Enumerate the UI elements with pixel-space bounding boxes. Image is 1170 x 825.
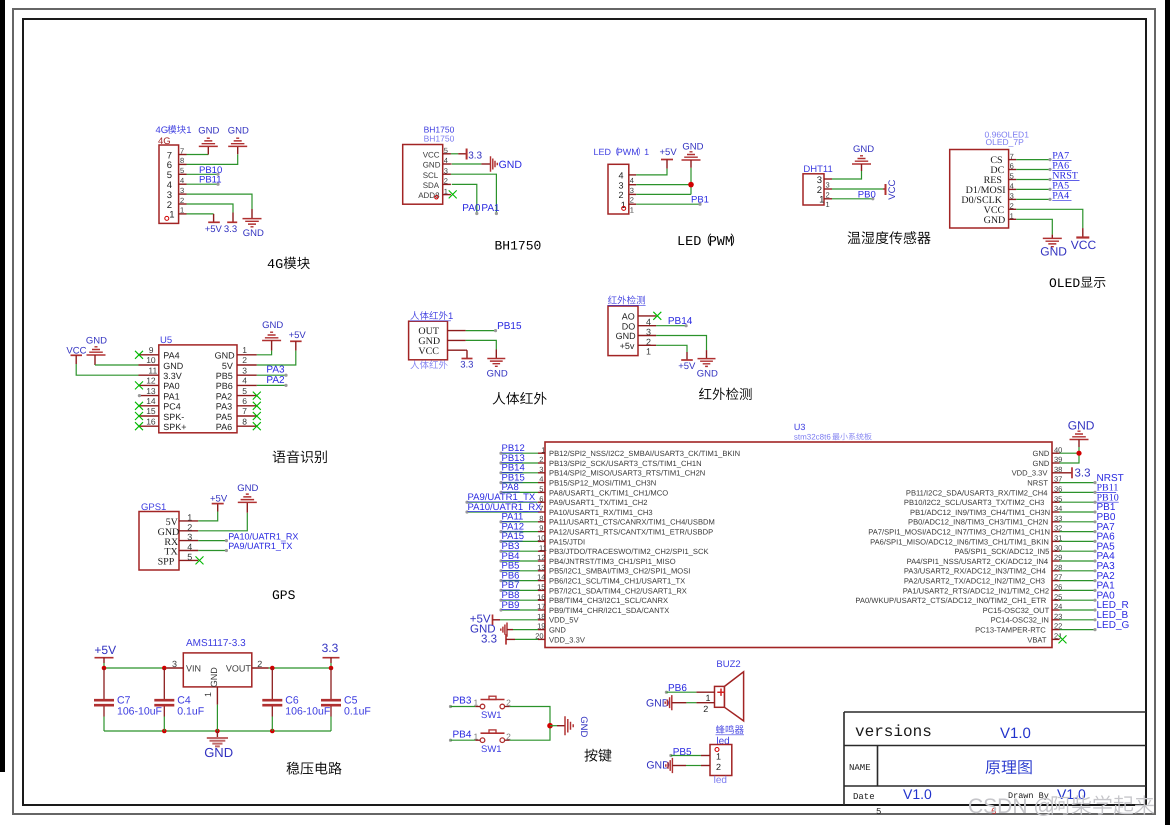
title block <box>844 712 1146 805</box>
LED PWM connector LED（PWM）1 <box>594 147 650 214</box>
ground GND (regulator) <box>204 731 233 760</box>
wire PIR VCC to 3.3 <box>466 349 467 351</box>
svg-text:5: 5 <box>242 386 247 396</box>
svg-text:1: 1 <box>242 345 247 355</box>
svg-text:4: 4 <box>539 475 543 484</box>
svg-text:PWM: PWM <box>617 147 639 157</box>
wire PB5 to led pin1 <box>671 755 701 757</box>
OLED display 0.96OLED1 <box>950 130 1029 229</box>
PIR module 人体红外1 <box>409 311 466 369</box>
wire 4G pin3 to GND <box>187 194 253 209</box>
svg-text:PA0/WKUP/USART2_CTS/ADC12_IN0/: PA0/WKUP/USART2_CTS/ADC12_IN0/TIM2_CH1_E… <box>855 596 1046 605</box>
svg-text:PC13-TAMPER-RTC: PC13-TAMPER-RTC <box>975 626 1046 635</box>
wire OLED pin7 to PA7 <box>1016 159 1050 161</box>
svg-text:GND: GND <box>1033 449 1050 458</box>
wire LED PWM pin3 to GND rail <box>636 184 691 186</box>
svg-text:PB11/I2C2_SDA/USART3_RX/TIM2_C: PB11/I2C2_SDA/USART3_RX/TIM2_CH4 <box>906 488 1048 497</box>
4G module connector 4G模块1 <box>156 125 192 223</box>
svg-text:4: 4 <box>1010 182 1014 191</box>
svg-text:PB3: PB3 <box>453 696 472 707</box>
wire OLED pin3 to PA4 <box>1016 198 1050 200</box>
svg-text:2: 2 <box>703 704 708 714</box>
svg-text:1: 1 <box>706 693 711 703</box>
svg-text:PB0: PB0 <box>858 189 876 200</box>
svg-text:19: 19 <box>537 622 545 631</box>
wire U3 pin1 PB12 <box>501 452 538 454</box>
wire OLED pin5 to NRST <box>1016 179 1050 181</box>
svg-text:4: 4 <box>444 156 448 165</box>
svg-text:PB6: PB6 <box>216 381 233 391</box>
buzzer BUZ2 <box>696 659 744 735</box>
svg-text:4: 4 <box>630 176 634 185</box>
power +5V (U3 VDD_5V) <box>470 614 493 626</box>
svg-text:1: 1 <box>646 347 651 357</box>
wire U3 pin9 PA12 <box>501 531 538 533</box>
no-connect U5 pin7 <box>253 412 261 420</box>
svg-text:PA2: PA2 <box>216 391 232 401</box>
svg-text:BH1750: BH1750 <box>424 133 455 143</box>
no-connect U5 pin14 <box>135 402 143 410</box>
svg-text:15: 15 <box>146 406 156 416</box>
svg-text:PB15/SP12_MOSI/TIM1_CH3N: PB15/SP12_MOSI/TIM1_CH3N <box>549 479 656 488</box>
regulator AMS1117-3.3 <box>167 638 269 705</box>
svg-text:VOUT: VOUT <box>226 664 252 674</box>
svg-text:17: 17 <box>537 602 545 611</box>
power 3.3 (regulator output) <box>322 641 340 663</box>
svg-text:GND: GND <box>682 142 703 153</box>
svg-text:1: 1 <box>169 210 174 221</box>
svg-text:PB5/I2C1_SMBAI/TIM3_CH2/SPI1_M: PB5/I2C1_SMBAI/TIM3_CH2/SPI1_MOSI <box>549 567 690 576</box>
junction output rail C5 <box>329 666 334 671</box>
switch SW1 (PB4) <box>474 730 512 755</box>
svg-text:2: 2 <box>1010 202 1014 211</box>
svg-text:1: 1 <box>541 445 545 454</box>
no-connect U5 pin9 <box>135 351 143 359</box>
wire SW1 to GND rail <box>505 706 510 708</box>
svg-text:18: 18 <box>537 612 545 621</box>
ground GND (U5 pin10) <box>86 335 107 365</box>
svg-text:12: 12 <box>537 553 545 562</box>
wire U3 pin17 PB9 <box>501 609 538 611</box>
svg-text:4G: 4G <box>156 125 169 136</box>
svg-text:SDA: SDA <box>423 181 440 190</box>
label 温湿度传感器 <box>848 231 861 243</box>
svg-text:5: 5 <box>876 807 881 817</box>
no-connect U5 pin5 <box>253 392 261 400</box>
svg-text:0.1uF: 0.1uF <box>177 706 204 718</box>
svg-text:OLED_7P: OLED_7P <box>986 137 1025 147</box>
svg-text:PA7/SPI1_MOSI/ADC12_IN7/TIM3_C: PA7/SPI1_MOSI/ADC12_IN7/TIM3_CH2/TIM1_CH… <box>868 528 1050 537</box>
svg-text:1: 1 <box>180 206 184 215</box>
svg-text:stm32c8t6: stm32c8t6 <box>794 433 831 442</box>
svg-text:PA2/USART2_TX/ADC12_IN2/TIM2_C: PA2/USART2_TX/ADC12_IN2/TIM2_CH3 <box>904 577 1045 586</box>
ground GND (U5 pin1) <box>262 320 283 351</box>
ground GND (LED PWM) <box>682 142 704 168</box>
svg-text:LED: LED <box>594 147 612 157</box>
power +5V (LED PWM pin4) <box>660 147 678 169</box>
power +5V (IR) <box>678 352 696 372</box>
IR detect module 红外检测 <box>608 295 657 356</box>
svg-text:1: 1 <box>203 692 213 697</box>
wire U3 pin30 PA5 <box>1060 550 1096 552</box>
wire OLED VCC to VCC <box>1016 209 1083 228</box>
svg-text:5: 5 <box>187 552 192 562</box>
svg-text:1: 1 <box>630 205 634 214</box>
wire GND to buzzer pin2 <box>672 702 687 704</box>
svg-text:PA5/SPI1_SCK/ADC12_IN5: PA5/SPI1_SCK/ADC12_IN5 <box>955 547 1050 556</box>
svg-text:5: 5 <box>180 166 184 175</box>
svg-text:VCC: VCC <box>887 180 898 200</box>
svg-text:VIN: VIN <box>186 664 201 674</box>
svg-text:GND: GND <box>697 369 718 380</box>
svg-text:PB14/SPI2_MISO/USART3_RTS/TIM1: PB14/SPI2_MISO/USART3_RTS/TIM1_CH2N <box>549 469 705 478</box>
wire DHT11 pin1 to PB0 <box>832 198 873 200</box>
wire 4G pin1 to +5V <box>187 213 214 215</box>
wire U3 pin16 PB8 <box>501 599 538 601</box>
svg-text:3.3: 3.3 <box>481 633 497 645</box>
wire IR GND to GND <box>656 336 706 351</box>
svg-text:PB9/TIM4_CHR/I2C1_SDA/CANTX: PB9/TIM4_CHR/I2C1_SDA/CANTX <box>549 606 669 615</box>
svg-text:2: 2 <box>444 177 448 186</box>
svg-text:+5v: +5v <box>620 341 635 351</box>
wire GPS RX to PA10/UATR1_RX <box>198 540 226 542</box>
wire U3 pin3 PB14 <box>501 472 538 474</box>
svg-text:PC15-OSC32_OUT: PC15-OSC32_OUT <box>983 606 1050 615</box>
svg-text:PC4: PC4 <box>163 402 181 412</box>
svg-text:15: 15 <box>537 583 545 592</box>
svg-text:PB1: PB1 <box>691 195 709 206</box>
junction ground rail C6 <box>270 729 275 734</box>
ground GND (OLED) <box>1040 235 1067 259</box>
svg-text:GND: GND <box>423 161 441 170</box>
svg-text:7: 7 <box>1010 152 1014 161</box>
svg-text:1: 1 <box>186 125 191 136</box>
wire U5 pin4 to PA2 <box>257 384 286 386</box>
power VCC (U5 pin11) <box>66 345 86 364</box>
svg-text:GND: GND <box>163 361 184 371</box>
svg-text:SPP: SPP <box>158 557 175 568</box>
svg-text:11: 11 <box>539 543 547 552</box>
svg-text:GND: GND <box>209 667 219 688</box>
wire U5 pin1 to GND <box>257 351 272 355</box>
svg-text:3: 3 <box>1010 192 1014 201</box>
led indicator <box>701 736 732 786</box>
wire 4G pin7 to GND <box>187 154 209 156</box>
power 3.3 (U3 VDD_3.3V) <box>481 633 506 645</box>
svg-text:CSDN @: CSDN @ <box>968 795 1055 818</box>
svg-text:DHT11: DHT11 <box>803 164 832 175</box>
svg-text:2: 2 <box>539 455 543 464</box>
svg-text:PA10/UATR1_RX: PA10/UATR1_RX <box>228 531 298 541</box>
wire U5 pin11 to VCC <box>76 364 138 375</box>
svg-text:PA8/USART1_CK/TIM1_CH1/MCO: PA8/USART1_CK/TIM1_CH1/MCO <box>549 488 668 497</box>
svg-text:PA1: PA1 <box>163 391 179 401</box>
svg-text:PA4/SPI1_NSS/USART2_CK/ADC12_I: PA4/SPI1_NSS/USART2_CK/ADC12_IN4 <box>907 557 1049 566</box>
wire GPS TX to PA9/UATR1_TX <box>198 550 226 552</box>
svg-text:PB14: PB14 <box>668 316 693 327</box>
svg-text:14: 14 <box>146 396 156 406</box>
svg-text:GND: GND <box>487 369 508 380</box>
wire PB6 to buzzer pin1 <box>666 691 696 693</box>
svg-text:PA3: PA3 <box>216 402 232 412</box>
wire U3 pin24 LED_R <box>1060 609 1096 611</box>
voice module U5 <box>139 335 257 433</box>
svg-text:4: 4 <box>187 542 192 552</box>
wire U5 pin3 to PA3 <box>257 374 286 376</box>
svg-text:BUZ2: BUZ2 <box>716 659 740 670</box>
power 3.3 (BH1750 VCC) <box>467 149 483 162</box>
svg-text:5: 5 <box>444 146 448 155</box>
wire U3 pin25 PA0 <box>1060 599 1096 601</box>
svg-text:4: 4 <box>619 171 624 181</box>
svg-text:+5V: +5V <box>94 643 116 657</box>
label 稳压电路 <box>286 762 299 775</box>
svg-text:PB9: PB9 <box>502 600 520 611</box>
svg-text:GND: GND <box>499 159 523 171</box>
capacitor C5 0.1uF <box>330 668 332 699</box>
wire U5 pin10 to GND <box>95 364 139 366</box>
label 语音识别 <box>273 451 286 463</box>
svg-text:PA9/USART1_TX/TIM1_CH2: PA9/USART1_TX/TIM1_CH2 <box>549 498 647 507</box>
wire U3 pin15 PB7 <box>501 589 538 591</box>
svg-text:GND: GND <box>1068 419 1095 433</box>
svg-text:VDD_3.3V: VDD_3.3V <box>1012 469 1049 478</box>
svg-text:4: 4 <box>180 176 184 185</box>
svg-text:10: 10 <box>537 534 545 543</box>
wire PB4 to SW1 <box>451 739 476 741</box>
capacitor C7 106-10uF <box>103 668 105 699</box>
no-connect U5 pin12 <box>135 381 143 389</box>
ground GND (GPS) <box>237 483 258 513</box>
wire 4G pin8 to GND <box>187 154 238 164</box>
svg-text:6: 6 <box>1010 162 1014 171</box>
svg-text:VDD_5V: VDD_5V <box>549 616 579 625</box>
svg-text:versions: versions <box>855 723 932 741</box>
svg-text:3: 3 <box>242 365 247 375</box>
wire PIR GND to GND <box>466 340 497 349</box>
wire U3 pin26 PA1 <box>1060 589 1096 591</box>
wire U3 pin33 PB0 <box>1060 521 1096 523</box>
wire U5 pin2 to +5V <box>257 351 296 365</box>
svg-text:16: 16 <box>537 592 545 601</box>
svg-text:1: 1 <box>187 512 192 522</box>
svg-text:GND: GND <box>215 351 236 361</box>
wire OLED pin4 to PA5 <box>1016 188 1050 190</box>
svg-text:PB3/JTDO/TRACESWO/TIM2_CH2/SPI: PB3/JTDO/TRACESWO/TIM2_CH2/SPI1_SCK <box>549 547 709 556</box>
svg-text:VDD_3.3V: VDD_3.3V <box>549 635 586 644</box>
svg-text:3: 3 <box>539 465 543 474</box>
svg-text:9: 9 <box>149 345 154 355</box>
svg-text:VCC: VCC <box>1071 238 1097 252</box>
svg-text:3: 3 <box>619 181 624 191</box>
svg-text:2: 2 <box>619 190 624 200</box>
no-connect U5 pin6 <box>253 402 261 410</box>
svg-text:8: 8 <box>242 416 247 426</box>
svg-text:3: 3 <box>187 532 192 542</box>
svg-text:PA0: PA0 <box>462 203 481 214</box>
wire 4G pin4 to PB11 <box>187 183 219 185</box>
ground GND (led) <box>646 758 672 773</box>
svg-text:PB8/TIM4_CH3/I2C1_SCL/CANRX: PB8/TIM4_CH3/I2C1_SCL/CANRX <box>549 596 668 605</box>
svg-text:GND: GND <box>86 335 107 346</box>
svg-text:PB11: PB11 <box>199 175 222 186</box>
svg-text:PC14-OSC32_IN: PC14-OSC32_IN <box>991 616 1049 625</box>
svg-text:GPS: GPS <box>272 588 296 603</box>
svg-text:GND: GND <box>549 626 566 635</box>
ground GND (IR) <box>697 350 718 379</box>
svg-text:2: 2 <box>716 762 721 772</box>
svg-text:GND: GND <box>228 126 249 137</box>
svg-text:3.3: 3.3 <box>224 224 237 235</box>
label 按键 <box>584 749 597 762</box>
svg-text:PA5: PA5 <box>216 412 232 422</box>
wire U3 pin14 PB6 <box>501 580 538 582</box>
svg-text:GND: GND <box>646 760 670 772</box>
wire 4G pin5 to PB10 <box>187 173 219 175</box>
junction (LED PWM pin3) <box>688 182 694 188</box>
svg-text:1: 1 <box>444 187 448 196</box>
svg-text:3: 3 <box>826 180 830 189</box>
wire 4G pin2 to 3.3 <box>187 204 234 213</box>
svg-text:PB4: PB4 <box>453 729 472 740</box>
svg-text:BH1750: BH1750 <box>495 239 542 254</box>
svg-text:PWM: PWM <box>709 235 733 250</box>
BH1750 sensor U-BH1750 <box>403 125 455 205</box>
capacitor C4 0.1uF <box>163 668 165 699</box>
svg-text:4G: 4G <box>267 258 283 273</box>
svg-text:PB4/JNTRST/TIM3_CH1/SPI1_MISO: PB4/JNTRST/TIM3_CH1/SPI1_MISO <box>549 557 676 566</box>
no-connect U3 VBAT <box>1059 635 1067 643</box>
free pin dot U5 pin13 <box>138 394 141 397</box>
ground GND (U3 pin19) <box>470 623 507 637</box>
svg-text:13: 13 <box>537 563 545 572</box>
svg-text:NAME: NAME <box>849 763 871 773</box>
svg-text:2: 2 <box>180 196 184 205</box>
svg-text:3.3: 3.3 <box>1075 468 1091 480</box>
svg-text:3: 3 <box>180 186 184 195</box>
svg-text:+5V: +5V <box>210 494 228 505</box>
svg-text:SPK+: SPK+ <box>163 422 186 432</box>
wire regulator GND pin to rail <box>216 705 218 731</box>
wire SW1 pin2 to GND rail <box>505 739 510 741</box>
svg-text:led: led <box>714 775 727 786</box>
svg-text:+5V: +5V <box>205 224 223 235</box>
power 3.3 (PIR) <box>460 359 473 371</box>
svg-text:1: 1 <box>819 195 824 206</box>
wire U3 pin11 PB3 <box>501 550 538 552</box>
svg-text:10: 10 <box>146 355 156 365</box>
no-connect IR AO <box>653 312 661 320</box>
power VCC (DHT11) <box>886 180 899 200</box>
svg-text:PA15/JTDI: PA15/JTDI <box>549 537 585 546</box>
svg-text:DO: DO <box>622 321 636 331</box>
no-connect U5 pin8 <box>253 422 261 430</box>
svg-text:Date: Date <box>853 792 875 802</box>
svg-text:AO: AO <box>622 312 635 322</box>
svg-text:3.3: 3.3 <box>460 360 473 371</box>
wire U3 pin22 LED_G <box>1060 629 1096 631</box>
svg-text:5V: 5V <box>222 361 233 371</box>
svg-text:PB7/I2C1_SDA/TIM4_CH2/USART1_R: PB7/I2C1_SDA/TIM4_CH2/USART1_RX <box>549 586 687 595</box>
svg-text:11: 11 <box>148 365 157 375</box>
ground GND (U3 pins 39/40) <box>1068 419 1095 448</box>
wire U3 pin5 PA8 <box>501 491 538 493</box>
power +5V (U5 pin2) <box>289 330 307 350</box>
svg-text:+5V: +5V <box>678 361 696 372</box>
wire BH1750 SDA to PA0 <box>452 184 477 213</box>
svg-text:PB5: PB5 <box>673 747 692 758</box>
svg-text:SW1: SW1 <box>481 744 502 755</box>
wire U3 pin34 PB1 <box>1060 511 1096 513</box>
junction input rail C7 <box>102 666 107 671</box>
capacitor C6 106-10uF <box>271 668 273 699</box>
wire U3 pin32 PA7 <box>1060 531 1096 533</box>
svg-text:1: 1 <box>716 751 721 761</box>
svg-text:AMS1117-3.3: AMS1117-3.3 <box>186 638 246 649</box>
svg-text:U5: U5 <box>160 335 172 346</box>
junction input rail C4 <box>162 666 167 671</box>
power 3.3 (4G pin2) <box>224 213 237 236</box>
wire IR +5v to +5V <box>656 345 687 352</box>
ground GND (DHT11) <box>852 144 874 171</box>
wire GPS GND to GND <box>198 513 247 531</box>
wire LED PWM pin2 <box>636 193 691 195</box>
wire PB3 to SW1 <box>451 706 476 708</box>
svg-text:14: 14 <box>537 573 545 582</box>
svg-text:PB10/I2C2_SCL/USART3_TX/TIM2_C: PB10/I2C2_SCL/USART3_TX/TIM2_CH3 <box>904 498 1044 507</box>
svg-text:PA3/USART2_RX/ADC12_IN3/TIM2_C: PA3/USART2_RX/ADC12_IN3/TIM2_CH4 <box>904 567 1046 576</box>
wire U3 pin19 <box>507 629 513 631</box>
svg-text:PA11/USART1_CTS/CANRX/TIM1_CH4: PA11/USART1_CTS/CANRX/TIM1_CH4/USBDM <box>549 518 715 527</box>
svg-text:2: 2 <box>630 196 634 205</box>
svg-text:3: 3 <box>630 186 634 195</box>
svg-text:PA6/SPI1_MISO/ADC12_IN6/TIM3_C: PA6/SPI1_MISO/ADC12_IN6/TIM3_CH1/TIM1_BK… <box>870 537 1049 546</box>
svg-text:VCC: VCC <box>423 150 440 159</box>
svg-text:GND: GND <box>853 144 874 155</box>
wire GND to led pin2 <box>672 765 686 767</box>
wire DHT11 pin2 to VCC <box>832 188 883 190</box>
GPS module GPS1 <box>139 502 198 570</box>
svg-text:PB0/ADC12_IN8/TIM3_CH3/TIM1_CH: PB0/ADC12_IN8/TIM3_CH3/TIM1_CH2N <box>908 518 1048 527</box>
ground GND (4G pin8) <box>228 126 249 155</box>
junction output rail C6 <box>270 666 275 671</box>
svg-text:PA1/USART2_RTS/ADC12_IN1/TIM2_: PA1/USART2_RTS/ADC12_IN1/TIM2_CH2 <box>903 586 1049 595</box>
wire U3 pin18 <box>493 619 501 621</box>
wire U3 pin20 <box>506 638 515 640</box>
wire junction to GND <box>550 725 557 727</box>
svg-text:GND: GND <box>204 745 233 760</box>
wire U3 pin4 PB15 <box>501 482 538 484</box>
svg-text:LED_G: LED_G <box>1097 620 1130 631</box>
svg-text:PB15: PB15 <box>497 321 522 332</box>
svg-text:0.1uF: 0.1uF <box>344 706 371 718</box>
svg-text:2: 2 <box>242 355 247 365</box>
svg-text:GPS1: GPS1 <box>141 502 166 513</box>
wire U3 pin7 PA10/UATR1_RX <box>467 511 538 513</box>
svg-text:PB1/ADC12_IN9/TIM3_CH4/TIM1_CH: PB1/ADC12_IN9/TIM3_CH4/TIM1_CH3N <box>910 508 1050 517</box>
wire U3 pin28 PA3 <box>1060 570 1096 572</box>
svg-text:GND: GND <box>262 320 283 331</box>
wire U3 pin31 PA6 <box>1060 540 1096 542</box>
svg-text:8: 8 <box>180 156 184 165</box>
svg-text:3.3V: 3.3V <box>163 371 182 381</box>
svg-text:1: 1 <box>1010 212 1014 221</box>
MCU U3 stm32c8t6最小系统板 <box>535 422 1062 648</box>
svg-text:GND: GND <box>1033 459 1050 468</box>
svg-text:5: 5 <box>1010 172 1014 181</box>
svg-text:12: 12 <box>146 376 156 386</box>
wire U3 pin8 PA11 <box>501 521 538 523</box>
